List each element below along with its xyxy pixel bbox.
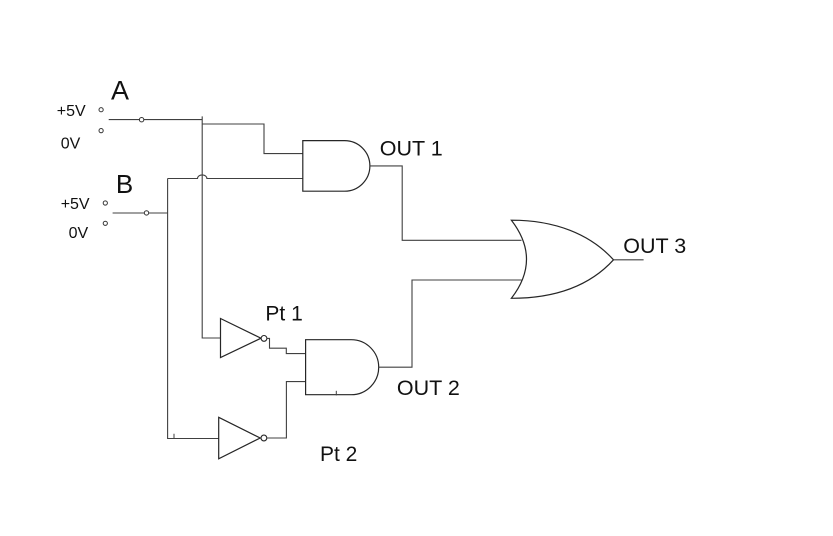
svg-text:0V: 0V — [69, 225, 89, 242]
wire: OR output — [614, 259, 644, 261]
wire: trunk A vertical down to inverter Pt1 input — [202, 116, 220, 338]
inverter Pt1 triangle — [221, 319, 262, 358]
inverter Pt2 triangle — [219, 417, 261, 459]
svg-text:OUT 3: OUT 3 — [623, 234, 686, 258]
svg-text:+5V: +5V — [57, 103, 86, 120]
AND gate U1 (OUT 1) — [303, 141, 370, 192]
wire: Pt2 output up to AND2 bottom input — [267, 382, 306, 438]
inverter Pt2 bubble — [261, 435, 267, 441]
switch SA +5V terminal — [99, 108, 103, 112]
switch SB +5V terminal — [103, 201, 107, 205]
switch SA pole circle — [139, 118, 143, 122]
wire: switch B lever to trunk B — [113, 212, 168, 214]
wire: B to AND1 bottom input with hop over trunk A — [168, 175, 303, 179]
svg-text:OUT 1: OUT 1 — [380, 136, 443, 160]
switch SB 0V terminal — [103, 221, 107, 225]
OR gate U3 (OUT 3) — [511, 220, 613, 298]
svg-text:+5V: +5V — [61, 196, 90, 213]
junction tick on trunk B bottom corner — [173, 434, 175, 439]
inverter Pt1 bubble — [261, 336, 267, 342]
wire: trunk B vertical down to inverter Pt2 input — [168, 179, 219, 439]
wire: AND1 output down to OR top input — [370, 166, 522, 240]
wire: Pt1 output steps to AND2 top input — [267, 338, 306, 353]
svg-text:B: B — [116, 169, 133, 199]
svg-text:0V: 0V — [61, 136, 81, 153]
wire: switch A lever to trunk A — [109, 119, 203, 121]
switch SB pole circle — [144, 211, 148, 215]
wire: branch A to AND1 top input — [202, 124, 303, 154]
svg-text:Pt 1: Pt 1 — [265, 302, 302, 325]
svg-text:OUT 2: OUT 2 — [397, 376, 460, 400]
wire: AND2 output up to OR bottom input — [379, 280, 522, 367]
AND gate U2 (OUT 2) — [306, 340, 379, 395]
svg-text:A: A — [111, 76, 129, 106]
svg-text:Pt 2: Pt 2 — [320, 443, 357, 466]
switch SA 0V terminal — [99, 129, 103, 133]
pin tick on AND2 bottom edge — [335, 391, 337, 396]
